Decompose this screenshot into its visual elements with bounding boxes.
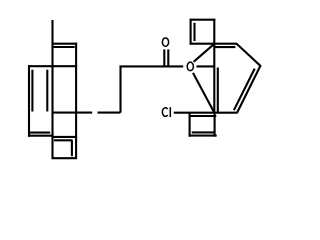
- node: carbonyl O label: [162, 38, 168, 47]
- wire: bridge vertical main (sq right + E-A): [213, 19, 215, 113]
- node: top-right square inner double: [193, 23, 195, 41]
- node: Cl label C glyph: [162, 108, 167, 117]
- wire: O to ring horizontal: [197, 65, 215, 67]
- wire: mid horizontal left part: [53, 112, 93, 114]
- node: bottom square inner top double: [54, 139, 73, 141]
- wire: mid horizontal right part: [98, 112, 121, 114]
- node: ester O label: [187, 62, 193, 71]
- node: top-left square top edge: [52, 43, 78, 45]
- node: C=O double bond left line: [163, 49, 165, 66]
- wire: hexagon edge C-D outer: [237, 65, 261, 113]
- node: bottom-right square top inner: [189, 115, 217, 117]
- node: hexagon edge C-D inner double: [234, 69, 255, 111]
- node: top-right square top edge: [190, 19, 216, 21]
- node: benzene bottom inner double: [30, 132, 50, 134]
- node: bottom square top edge: [52, 136, 78, 138]
- wire: chain horizontal to ester O: [120, 65, 184, 67]
- wire: Cl bond + hexagon bottom D-E: [174, 112, 238, 114]
- wire: chain vertical: [119, 66, 121, 112]
- wire: bottom-right square right edge: [214, 113, 216, 137]
- wire: cage methyl + long vertical: [51, 20, 53, 158]
- node: benzene left inner double: [31, 70, 33, 112]
- node: benzene right inner double: [46, 70, 48, 112]
- node: Cl label l glyph: [169, 107, 171, 117]
- node: bridge inner double: [217, 68, 219, 113]
- node: benzene bottom edge / square top: [28, 135, 54, 137]
- wire: top-right square left edge: [190, 19, 192, 45]
- wire: O to E diagonal: [193, 73, 214, 113]
- node: bottom square inner right double: [71, 140, 73, 156]
- wire: bottom-right square left edge: [189, 113, 191, 137]
- wire: O to A diagonal: [194, 44, 215, 62]
- wire: square bottom + hexagon top edge A-B: [190, 43, 237, 45]
- node: hexagon top inner double: [215, 46, 236, 48]
- node: C=O double bond right line: [167, 49, 169, 66]
- wire: benzene left edge: [28, 65, 30, 137]
- node: bottom-right square bottom edge: [189, 135, 217, 137]
- node: bottom square bottom edge: [52, 157, 78, 159]
- node: top-left square inner double line: [54, 46, 75, 48]
- wire: right vertical of top square down to bottom square: [75, 43, 77, 159]
- node: cage upper horizontal: [28, 65, 77, 67]
- node: bottom-right square inner bottom: [192, 131, 214, 133]
- wire: hexagon edge B-C: [236, 43, 261, 66]
